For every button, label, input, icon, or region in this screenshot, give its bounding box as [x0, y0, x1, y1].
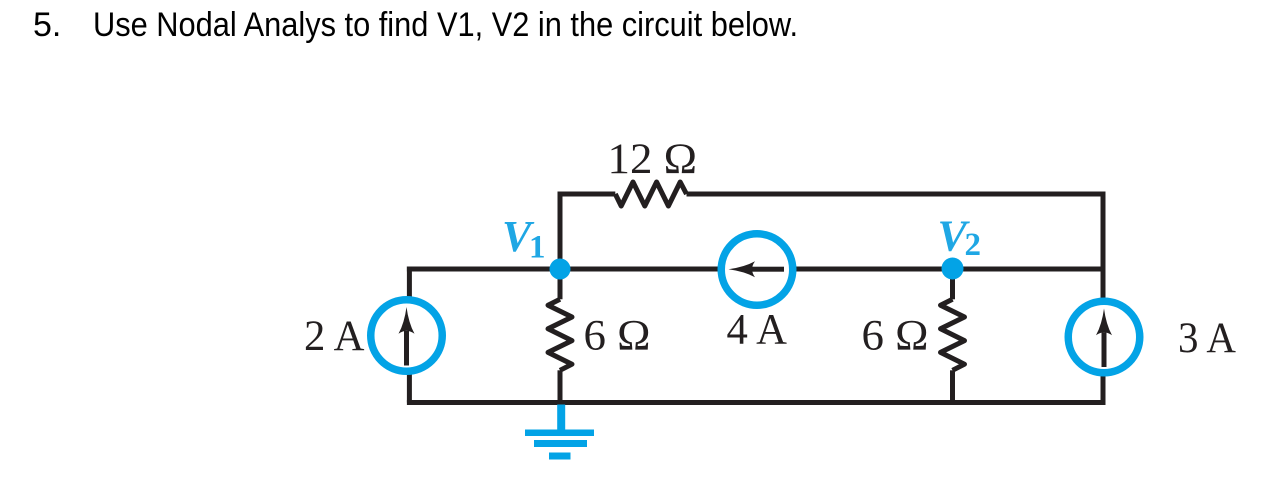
svg-text:6 Ω: 6 Ω	[584, 313, 651, 360]
wire: V1 resistor bottom lead	[558, 370, 563, 405]
current source 4A circle	[721, 234, 793, 306]
svg-text:5.: 5.	[33, 6, 61, 44]
ground	[525, 405, 594, 460]
svg-text:1: 1	[529, 230, 546, 266]
wire: bottom horizontal	[407, 400, 1106, 405]
wire: top-right run + right vertical	[687, 194, 1104, 405]
wire: V1 vertical + top-left run	[560, 194, 615, 299]
svg-text:3 A: 3 A	[1178, 315, 1236, 362]
wire: V2 resistor bottom lead	[950, 370, 955, 405]
current source 3A arrow	[1096, 309, 1112, 368]
svg-text:6 Ω: 6 Ω	[862, 313, 929, 360]
title text	[33, 6, 798, 44]
current source 3A circle	[1068, 301, 1140, 373]
wire: middle horizontal	[407, 267, 1103, 272]
current source 2A arrow	[399, 307, 415, 366]
resistor 12ohm zigzag	[615, 182, 686, 206]
current source 2A circle	[371, 300, 443, 372]
wire: left vertical	[407, 267, 412, 403]
svg-text:12 Ω: 12 Ω	[608, 136, 698, 183]
node V2 dot	[942, 258, 964, 280]
current source 4A arrow	[729, 261, 785, 277]
svg-text:2: 2	[965, 227, 982, 263]
resistor 6ohm right zigzag (below node V2)	[941, 299, 965, 370]
svg-text:2 A: 2 A	[304, 313, 365, 360]
svg-text:Use Nodal Analys to find V1, V: Use Nodal Analys to find V1, V2 in the c…	[93, 6, 798, 44]
node label V1	[502, 212, 546, 266]
wire: V2 vertical top lead	[950, 269, 955, 299]
svg-text:4 A: 4 A	[727, 307, 788, 354]
resistor R 6ohm left zigzag (below node V1)	[548, 299, 572, 370]
node label V2	[938, 212, 982, 263]
node V1 dot	[550, 259, 571, 280]
